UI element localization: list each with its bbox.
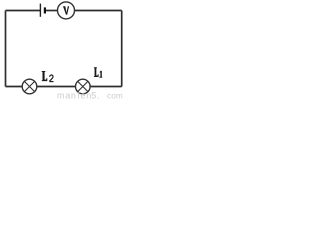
battery cell: short thick plate (-) [44,7,46,13]
wire: lamp L1 to lamp L2 [37,86,76,88]
label L1: subscript 1 [99,71,102,78]
wire: battery to voltmeter [46,10,58,12]
watermark manfen5.com [57,90,123,100]
wire: right vertical [121,11,123,87]
svg-text:5.: 5. [91,90,100,99]
label L2: subscript 2 [49,75,53,82]
lamp L1 cross [78,81,88,91]
wire: voltmeter to top-right corner [75,10,122,12]
voltmeter V letter [63,6,69,14]
lamp L2 cross [24,81,34,91]
label L2: letter L [42,71,48,81]
wire: left vertical [5,11,7,87]
voltmeter circle [58,2,75,19]
svg-text:com: com [107,91,123,99]
background [0,0,126,99]
lamp L1 circle [76,79,91,94]
svg-text:fen: fen [77,90,92,99]
label L1: letter L [94,67,99,77]
wire: lamp L2 to bottom-left corner [6,86,23,88]
lamp L2 circle [22,79,37,94]
wire: bottom-right corner to lamp L1 [90,86,121,88]
battery cell: long plate (+) [39,4,41,17]
wire: top-left horizontal to battery [6,10,41,12]
svg-text:man: man [57,90,77,99]
